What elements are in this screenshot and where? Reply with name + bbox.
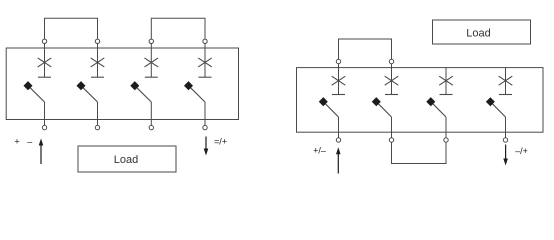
wire pole R2 lower vertical <box>391 117 393 138</box>
pole L2 top terminal <box>95 39 99 43</box>
disconnector handle (filled square) pole L1 <box>23 81 32 90</box>
wire pole L2 upper vertical <box>97 44 99 78</box>
svg-text:Load: Load <box>466 27 490 39</box>
disconnector handle (filled square) pole R4 <box>486 97 495 106</box>
output arrow down (right diagram) <box>503 145 508 166</box>
svg-text:+/–: +/– <box>313 146 326 156</box>
wire pole L3 lower vertical <box>150 102 152 125</box>
pole L2 bottom terminal <box>95 125 99 129</box>
wire pole R3 lower vertical <box>445 117 447 138</box>
wire pole R2 upper vertical <box>391 64 393 95</box>
wire pole L4 lower vertical <box>204 102 206 125</box>
pole L3 bottom terminal <box>149 125 153 129</box>
load box (right diagram) <box>433 20 531 44</box>
svg-text:=/+: =/+ <box>214 137 227 147</box>
left converter enclosure <box>6 48 238 120</box>
disconnector handle (filled square) pole R2 <box>372 97 381 106</box>
fixed contact bar pole L3 <box>145 76 158 78</box>
breaker X contact pole L3 <box>145 58 159 67</box>
svg-text:–: – <box>27 137 32 147</box>
pole L1 bottom terminal <box>42 125 46 129</box>
disconnector handle (filled square) pole L3 <box>130 81 139 90</box>
input arrow up (left diagram) <box>39 139 44 165</box>
pole R4 bottom terminal <box>503 138 507 142</box>
load box (left diagram) <box>78 146 176 172</box>
svg-text:–/+: –/+ <box>515 146 528 156</box>
disconnector blade pole L2 <box>81 86 98 102</box>
wire jumper link poles L1-L2 (top) <box>45 18 98 39</box>
fixed contact bar pole R3 <box>440 94 453 96</box>
wire jumper link poles L3-L4 (top) <box>151 18 205 39</box>
right converter enclosure <box>297 68 544 133</box>
fixed contact bar pole L2 <box>91 76 104 78</box>
disconnector handle (filled square) pole L4 <box>184 81 193 90</box>
wire pole R1 lower vertical <box>338 117 340 138</box>
wire pole L3 upper vertical <box>150 44 152 78</box>
wire jumper link poles R1-R2 (top) <box>339 39 392 59</box>
breaker X contact pole R3 <box>439 76 453 85</box>
fixed contact bar pole R1 <box>332 94 345 96</box>
disconnector blade pole R4 <box>490 102 505 117</box>
wire pole R4 lower vertical <box>505 117 507 138</box>
disconnector blade pole R2 <box>376 102 391 117</box>
svg-text:+: + <box>14 137 19 147</box>
disconnector blade pole L3 <box>135 86 152 102</box>
pole R1 top terminal <box>336 59 340 63</box>
disconnector handle (filled square) pole L2 <box>76 81 85 90</box>
pole R2 bottom terminal <box>389 138 393 142</box>
pole L4 top terminal <box>203 39 207 43</box>
breaker X contact pole R4 <box>499 76 513 85</box>
breaker X contact pole L1 <box>38 58 52 67</box>
disconnector blade pole L1 <box>28 86 45 102</box>
input arrow up (right diagram) <box>336 147 341 173</box>
wire pole L1 lower vertical <box>44 102 46 125</box>
breaker X contact pole L2 <box>91 58 105 67</box>
breaker X contact pole L4 <box>198 58 212 67</box>
disconnector handle (filled square) pole R3 <box>426 97 435 106</box>
fixed contact bar pole L1 <box>38 76 51 78</box>
disconnector blade pole R1 <box>323 102 338 117</box>
fixed contact bar pole R2 <box>385 94 398 96</box>
wire pole L4 upper vertical <box>204 44 206 78</box>
wire pole R4 upper vertical <box>505 68 507 95</box>
pole L3 top terminal <box>149 39 153 43</box>
pole R2 top terminal <box>389 59 393 63</box>
pole L4 bottom terminal <box>203 125 207 129</box>
pole R3 bottom terminal <box>444 138 448 142</box>
output arrow down (left diagram) <box>204 137 209 156</box>
wire pole R1 upper vertical <box>338 64 340 95</box>
wire jumper link poles R2-R3 (bottom) <box>392 142 447 163</box>
disconnector blade pole L4 <box>189 86 206 102</box>
pole R1 bottom terminal <box>336 138 340 142</box>
fixed contact bar pole L4 <box>199 76 212 78</box>
wire pole L2 lower vertical <box>97 102 99 125</box>
disconnector handle (filled square) pole R1 <box>319 97 328 106</box>
breaker X contact pole R2 <box>385 76 399 85</box>
disconnector blade pole R3 <box>431 102 446 117</box>
svg-text:Load: Load <box>114 154 138 166</box>
wire pole L1 upper vertical <box>44 44 46 78</box>
wire pole R3 upper vertical <box>445 68 447 95</box>
pole L1 top terminal <box>42 39 46 43</box>
breaker X contact pole R1 <box>332 76 346 85</box>
fixed contact bar pole R4 <box>499 94 512 96</box>
